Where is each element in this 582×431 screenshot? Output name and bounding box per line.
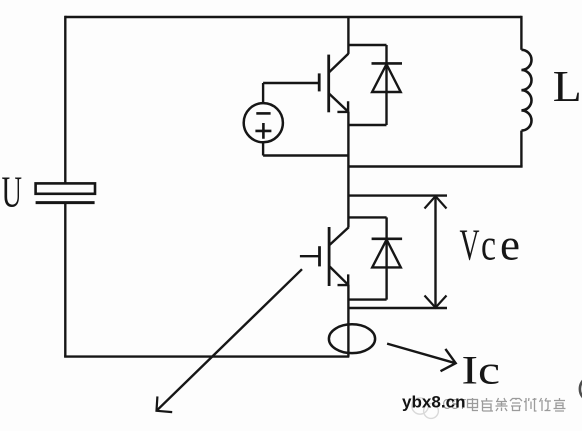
wire bottom bus <box>64 355 349 357</box>
inductor L <box>521 50 531 131</box>
wire midpoint vertical (Q1 emitter to Q2 collector) <box>347 112 349 228</box>
wire left vertical upper <box>64 16 66 183</box>
current probe ellipse <box>329 324 375 353</box>
wire Vce bottom reference line <box>349 307 448 309</box>
wire top bus <box>65 16 521 18</box>
wire left vertical lower <box>64 203 66 357</box>
wire Vce top reference line <box>349 194 448 196</box>
wire V1 bottom to emitter <box>263 154 348 156</box>
wire right vertical upper <box>520 16 522 50</box>
transistor Q1 upper IGBT <box>319 54 348 113</box>
svg-text:V: V <box>460 221 480 270</box>
diode D2 freewheel lower <box>349 217 403 299</box>
annotation arrow pointing from Q2 gate <box>157 269 303 412</box>
svg-text:Ic: Ic <box>462 347 501 392</box>
diode D1 freewheel upper <box>348 45 402 125</box>
label Vce <box>460 221 521 270</box>
wire inductor bottom to midpoint node <box>348 165 522 167</box>
svg-text:c: c <box>481 221 496 270</box>
wire right vertical lower <box>520 131 522 167</box>
wire Q2 emitter down through probe to bottom bus <box>347 285 349 357</box>
watermark Chinese characters (drawn) <box>468 398 566 411</box>
voltage source V1 gate drive <box>244 83 283 156</box>
svg-text:ybx8.cn: ybx8.cn <box>402 393 466 412</box>
voltage source U (DC-link) <box>36 183 95 202</box>
svg-text:U: U <box>2 168 23 217</box>
watermark CST logo circle <box>412 398 439 419</box>
transistor Q2 lower IGBT <box>300 227 349 286</box>
arrow Ic <box>387 344 456 372</box>
wire gate wire (source to Q1 gate) <box>263 82 319 84</box>
wire collector drop from top bus <box>347 17 349 54</box>
svg-text:e: e <box>500 221 520 270</box>
measurement arrow Vce double-headed <box>425 196 447 307</box>
svg-text:L: L <box>553 62 582 111</box>
watermark clipped parenthesis at right edge <box>580 380 582 398</box>
